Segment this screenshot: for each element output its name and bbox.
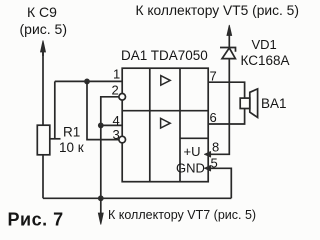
svg-text:К C9: К C9 — [27, 4, 57, 20]
svg-text:8: 8 — [212, 140, 219, 155]
wire pin 1 horizontal — [55, 80, 122, 82]
wire pin 2 — [101, 97, 119, 126]
svg-text:GND: GND — [176, 161, 205, 176]
diode VD1 triangle — [222, 48, 235, 59]
svg-text:DA1 TDA7050: DA1 TDA7050 — [121, 48, 208, 63]
svg-text:3: 3 — [113, 127, 120, 142]
wire pin 6 to speaker — [208, 109, 244, 125]
svg-text:1: 1 — [113, 67, 120, 82]
pin 3 inversion bubble — [119, 136, 126, 143]
op-amp amplifier triangle 2 — [161, 118, 171, 128]
op-amp U=DA1 box — [122, 68, 208, 182]
wire R1 bottom to bottom rail — [42, 155, 44, 199]
wire pin 7 to speaker — [208, 82, 244, 98]
svg-text:10 к: 10 к — [59, 140, 84, 155]
node К C9 arrow — [41, 41, 46, 57]
wire R1 tap up to pin 1 — [54, 81, 56, 138]
wire pin 8 to +U bus — [208, 59, 229, 155]
svg-text:BA1: BA1 — [261, 96, 287, 111]
resistor R1 — [37, 125, 50, 155]
node К коллектору VT7 arrow — [98, 198, 103, 224]
svg-text:4: 4 — [113, 113, 120, 128]
speaker BA1 cone — [250, 89, 258, 118]
svg-text:К коллектору VT5 (рис. 5): К коллектору VT5 (рис. 5) — [136, 3, 299, 18]
svg-text:К коллектору VT7 (рис. 5): К коллектору VT7 (рис. 5) — [108, 208, 256, 222]
svg-text:7: 7 — [210, 69, 217, 84]
op-amp amplifier triangle 1 — [161, 76, 170, 86]
pin 8 connection arrow — [204, 151, 211, 157]
svg-text:6: 6 — [210, 110, 217, 125]
resistor R1 value label — [59, 125, 84, 155]
junction node pin2/pin4 — [98, 123, 104, 129]
svg-text:2: 2 — [112, 83, 119, 98]
pin 2 inversion bubble — [119, 94, 126, 101]
R1 tap bar — [50, 138, 61, 140]
wire pin 4 — [101, 124, 122, 126]
wire from К C9 arrow down to R1 top — [42, 52, 44, 125]
svg-text:КС168А: КС168А — [241, 53, 290, 68]
bottom rail wire — [43, 197, 231, 199]
wire junction down to pin 3 — [87, 81, 119, 139]
pin 5 connection arrow — [204, 165, 211, 171]
node К C9 label — [20, 4, 68, 37]
junction node on bottom rail — [98, 195, 104, 201]
diode VD1 zener cathode bar — [220, 48, 236, 52]
svg-text:+U: +U — [184, 144, 201, 159]
svg-text:VD1: VD1 — [252, 37, 277, 52]
svg-text:Рис. 7: Рис. 7 — [8, 210, 64, 230]
wire pin 5 GND loop to bottom rail — [208, 168, 231, 198]
speaker BA1 box — [240, 98, 250, 108]
wire junction down to bottom rail — [100, 125, 102, 198]
svg-text:(рис. 5): (рис. 5) — [20, 21, 68, 37]
node К коллектору VT5 arrow — [227, 25, 232, 48]
svg-text:R1: R1 — [63, 125, 80, 140]
junction node on pin 1 wire — [84, 79, 90, 85]
diode VD1 labels — [241, 37, 290, 68]
